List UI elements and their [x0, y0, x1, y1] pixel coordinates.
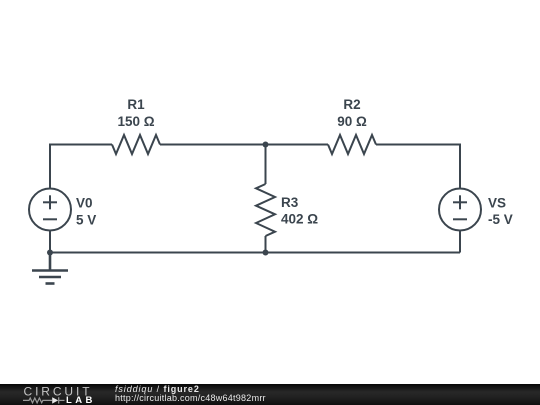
wire R3 to node B: [265, 236, 267, 253]
svg-text:150 Ω: 150 Ω: [117, 114, 154, 129]
svg-text:R1: R1: [127, 97, 145, 112]
resistor R2: [328, 135, 376, 154]
voltage source V0: [29, 189, 71, 231]
svg-text:VS: VS: [488, 196, 506, 211]
wire VS bottom to bottom rail: [459, 231, 461, 253]
svg-text:R2: R2: [343, 97, 360, 112]
resistor R1: [112, 135, 160, 154]
svg-text:5 V: 5 V: [76, 212, 96, 227]
svg-text:R3: R3: [281, 195, 299, 210]
svg-text:LAB: LAB: [66, 395, 96, 405]
resistor R3: [256, 184, 275, 236]
node A junction dot: [263, 142, 269, 148]
svg-text:-5 V: -5 V: [488, 212, 513, 227]
wire top-left from V0 top to R1: [50, 145, 112, 189]
wire node A to R3: [265, 145, 267, 185]
wire bottom rail: [50, 252, 460, 254]
wire V0 bottom to ground node: [49, 231, 51, 253]
wire R1 to node A: [160, 144, 266, 146]
node B junction dot: [263, 250, 269, 256]
svg-text:90 Ω: 90 Ω: [337, 114, 367, 129]
CircuitLab logo: [0, 384, 110, 405]
wire node A to R2: [266, 144, 329, 146]
node ground junction dot: [47, 250, 53, 256]
svg-text:402 Ω: 402 Ω: [281, 211, 318, 226]
wire R2 to VS top: [376, 145, 460, 189]
svg-text:V0: V0: [76, 196, 93, 211]
voltage source VS: [439, 189, 481, 231]
ground: [32, 253, 68, 284]
